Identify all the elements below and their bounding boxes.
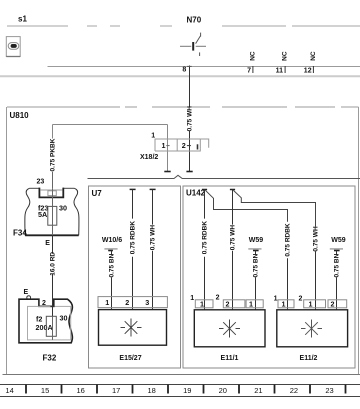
wire fuse F34 to X18/2 pin1, 0.75 PKBK <box>50 125 171 189</box>
connector X18/2 <box>140 133 209 162</box>
svg-text:E: E <box>45 240 50 247</box>
svg-text:U810: U810 <box>10 111 30 120</box>
svg-text:11: 11 <box>276 68 284 75</box>
svg-text:1: 1 <box>105 298 109 307</box>
svg-text:20: 20 <box>219 386 227 395</box>
svg-text:N70: N70 <box>187 16 202 25</box>
svg-text:1: 1 <box>190 295 194 302</box>
svg-text:E15/27: E15/27 <box>119 355 141 362</box>
svg-text:E11/1: E11/1 <box>221 355 239 362</box>
svg-text:X18/2: X18/2 <box>140 154 158 161</box>
wire E15/27 pin1 to W10/6, 0.75 BN <box>109 251 116 310</box>
svg-text:W10/6: W10/6 <box>102 237 122 244</box>
svg-text:23: 23 <box>325 386 333 395</box>
section separator line <box>0 75 360 77</box>
svg-text:15: 15 <box>41 386 49 395</box>
svg-text:16.0 RD: 16.0 RD <box>50 252 57 276</box>
svg-text:7: 7 <box>247 68 251 75</box>
svg-text:F32: F32 <box>43 354 57 363</box>
svg-text:17: 17 <box>112 386 120 395</box>
svg-text:12: 12 <box>304 68 312 75</box>
svg-text:NC: NC <box>282 51 289 61</box>
lamp E11/1 <box>194 310 265 362</box>
node U810 dashed box <box>3 107 360 375</box>
svg-text:2: 2 <box>331 300 335 309</box>
ground W59 (E11/1) <box>248 237 263 251</box>
wire N70 pin8 to X18/2 pin2, 0.75 WH <box>186 73 193 172</box>
svg-text:2: 2 <box>125 298 129 307</box>
svg-text:0.75 WH: 0.75 WH <box>230 225 237 251</box>
svg-text:0.75 PKBK: 0.75 PKBK <box>50 138 57 171</box>
svg-text:18: 18 <box>148 386 156 395</box>
svg-text:22: 22 <box>290 386 298 395</box>
svg-text:E: E <box>24 289 29 296</box>
pin 12 NC <box>304 51 317 74</box>
ground W59 (E11/2) <box>330 237 346 251</box>
svg-text:E11/2: E11/2 <box>300 355 318 362</box>
lamp E11/2 <box>277 310 348 362</box>
svg-text:0.75 RDBK: 0.75 RDBK <box>202 221 209 255</box>
lamp E15/27 connector strip <box>98 297 167 308</box>
svg-text:0.75 BN: 0.75 BN <box>334 253 341 277</box>
svg-text:200A: 200A <box>36 323 53 332</box>
svg-text:U7: U7 <box>92 189 103 198</box>
svg-text:2: 2 <box>226 300 230 309</box>
branch wire to E11/2, 0.75 RDBK <box>205 190 291 310</box>
svg-text:0.75 WH: 0.75 WH <box>313 226 320 252</box>
node U7 box <box>89 186 181 368</box>
N70 box bottom edge <box>48 66 360 68</box>
svg-text:0.75 RDBK: 0.75 RDBK <box>130 221 137 255</box>
svg-text:NC: NC <box>310 51 317 61</box>
svg-text:23: 23 <box>37 178 45 185</box>
wire E11/1 to W59, 0.75 BN <box>253 251 260 310</box>
svg-text:30: 30 <box>59 203 67 212</box>
svg-text:0.75 WH: 0.75 WH <box>150 225 157 251</box>
branch wire to E11/2, 0.75 WH <box>233 190 319 310</box>
wire to E11/1 pin2, 0.75 WH <box>230 190 237 310</box>
svg-text:0.75 BN: 0.75 BN <box>109 253 116 277</box>
svg-text:5A: 5A <box>38 210 47 219</box>
wire E15/27 pin2, 0.75 RDBK <box>130 189 137 309</box>
svg-text:0.75 RDBK: 0.75 RDBK <box>285 223 292 257</box>
wire to E11/1 pin1, 0.75 RDBK <box>202 190 209 310</box>
wire F34 to F32, 16.0 RD <box>50 235 57 316</box>
pin 7 NC <box>247 51 256 74</box>
svg-text:0.75 WH: 0.75 WH <box>187 106 194 132</box>
break line with chevron <box>88 175 360 178</box>
switch S1 body <box>6 37 20 57</box>
svg-text:W59: W59 <box>331 237 346 244</box>
svg-text:8: 8 <box>182 67 186 74</box>
svg-text:2: 2 <box>216 295 220 302</box>
svg-text:21: 21 <box>254 386 262 395</box>
svg-text:19: 19 <box>183 386 191 395</box>
svg-text:2: 2 <box>182 141 186 150</box>
wire E15/27 pin3, 0.75 WH <box>150 189 157 309</box>
wire E11/2 to W59, 0.75 BN <box>334 251 341 310</box>
svg-text:1: 1 <box>200 300 204 309</box>
svg-text:14: 14 <box>5 386 13 395</box>
svg-text:30: 30 <box>60 313 68 322</box>
pin 11 NC <box>276 51 289 74</box>
dashed top box edge <box>7 25 360 27</box>
lamp E11/2 connector pins <box>274 296 347 309</box>
svg-text:1: 1 <box>282 300 286 309</box>
lamp E11/1 connector pins <box>190 295 263 309</box>
svg-text:F34: F34 <box>13 228 27 237</box>
svg-text:NC: NC <box>250 51 257 61</box>
svg-text:3: 3 <box>145 298 149 307</box>
coordinate ruler <box>0 385 360 397</box>
svg-text:s1: s1 <box>18 15 27 24</box>
svg-text:2: 2 <box>42 300 46 307</box>
svg-text:1: 1 <box>309 300 313 309</box>
lamp E15/27 <box>99 310 167 362</box>
svg-text:1: 1 <box>162 141 166 150</box>
switch contact in N70 <box>180 33 206 56</box>
svg-text:0.75 BN: 0.75 BN <box>253 253 260 277</box>
svg-text:1: 1 <box>249 300 253 309</box>
ground W10/6 <box>102 237 122 251</box>
node U142 box <box>183 186 355 368</box>
svg-text:2: 2 <box>299 296 303 303</box>
svg-text:1: 1 <box>274 296 278 303</box>
pin 8 <box>182 66 191 74</box>
fuse box F32 <box>19 289 72 363</box>
fuse F34 <box>13 178 79 237</box>
svg-text:W59: W59 <box>249 237 264 244</box>
svg-text:16: 16 <box>77 386 85 395</box>
